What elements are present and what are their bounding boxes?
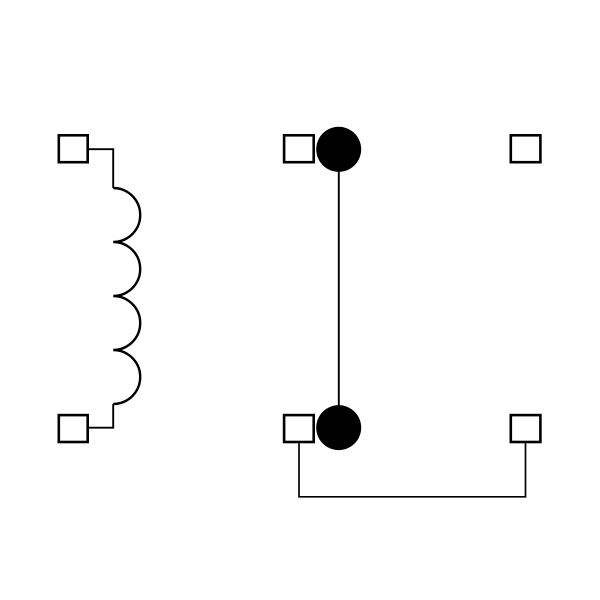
wire between contacts	[338, 149, 340, 427]
pin square 2 (coil bottom terminal)	[59, 415, 88, 442]
coil L1	[113, 188, 140, 404]
pin square 3 (common top terminal)	[284, 135, 314, 162]
pin square 6 (bottom right terminal)	[511, 415, 541, 442]
contact dot bottom	[316, 405, 361, 450]
pin square 4 (common bottom terminal)	[284, 415, 314, 442]
contact dot top	[316, 127, 361, 172]
pin square 1 (coil top terminal)	[59, 135, 88, 162]
pin square 5 (top right terminal)	[511, 135, 541, 162]
wire from coil to coil bottom terminal	[89, 404, 113, 428]
wire from coil top terminal to coil	[89, 149, 113, 188]
wire joining bottom terminals	[299, 443, 526, 497]
